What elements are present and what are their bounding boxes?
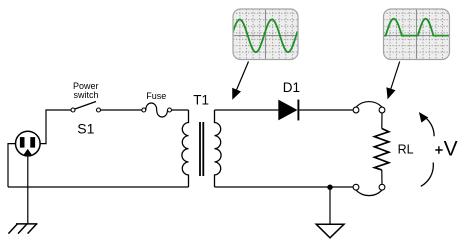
wire switch to fuse (101, 109, 142, 111)
wire junction to chassis ground (329, 187, 331, 224)
AC plug P1 (15, 131, 40, 156)
svg-text:switch: switch (73, 90, 98, 100)
svg-text:RL: RL (398, 142, 414, 156)
wire resistor to bottom-right terminal (381, 170, 383, 184)
terminal pair bottom with jumper arc (353, 184, 385, 195)
bottom rail right (secondary to terminal) (215, 186, 354, 188)
terminal pair top with jumper arc (353, 102, 385, 113)
junction node (327, 185, 332, 190)
fuse F1 (142, 103, 172, 117)
wire plug left down to bottom rail (8, 144, 16, 187)
wire plug bottom to earth ground (27, 156, 29, 224)
switch S1 (71, 102, 101, 113)
oscilloscope screen 2 (rectified output) (384, 9, 450, 60)
resistor RL (374, 129, 388, 171)
label +V (435, 146, 442, 154)
earth ground symbol (8, 224, 37, 234)
svg-text:D1: D1 (283, 80, 300, 95)
svg-text:T1: T1 (193, 92, 209, 107)
oscilloscope screen 1 (input sine) (233, 9, 298, 60)
wire diode to top-left terminal (299, 109, 353, 111)
wire secondary top to diode (215, 109, 279, 111)
svg-text:S1: S1 (77, 121, 94, 137)
svg-text:V: V (444, 137, 458, 160)
leader arrow from scope 2 to output terminal (386, 62, 399, 100)
transformer T1 primary winding (182, 110, 189, 187)
diode D1 (278, 100, 298, 121)
svg-text:Fuse: Fuse (146, 91, 166, 101)
leader arrow from scope 1 to secondary wire (232, 62, 248, 100)
transformer T1 secondary winding (215, 110, 222, 187)
chassis ground (open triangle) (316, 224, 344, 238)
wire fuse to transformer primary (172, 109, 189, 111)
wire plug right to switch (hot lead) (40, 110, 71, 144)
transformer T1 core (200, 122, 203, 176)
wire terminal to resistor (381, 113, 383, 129)
+V curved arrow (419, 112, 434, 186)
bottom rail left (plug to primary) (8, 186, 189, 188)
